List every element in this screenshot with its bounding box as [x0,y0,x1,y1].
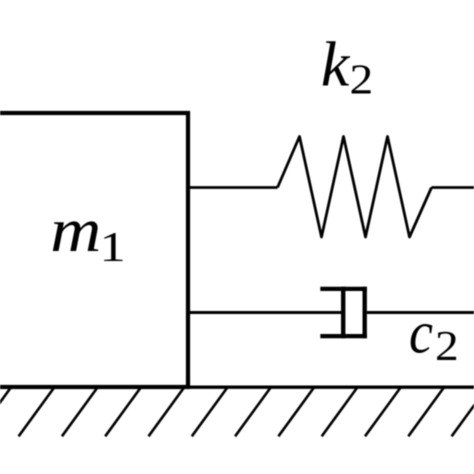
wire damper rod left [186,311,343,314]
svg-text:1: 1 [100,225,126,271]
damper cylinder c2 [320,287,367,338]
svg-text:2: 2 [350,56,374,103]
spring k2 [278,137,432,238]
ground hatching [0,388,474,436]
svg-text:c: c [409,300,433,366]
wire damper rod right [367,311,474,314]
svg-text:m: m [50,197,101,265]
svg-text:k: k [321,29,351,100]
damper piston plate [341,287,345,338]
wire spring lead-out [432,186,474,189]
mass m1 [0,113,188,387]
label m1 [50,197,125,271]
label c2 [409,300,459,370]
wire spring lead-in [186,186,278,189]
ground line [0,386,474,389]
label k2 [321,29,373,103]
svg-text:2: 2 [435,323,459,370]
